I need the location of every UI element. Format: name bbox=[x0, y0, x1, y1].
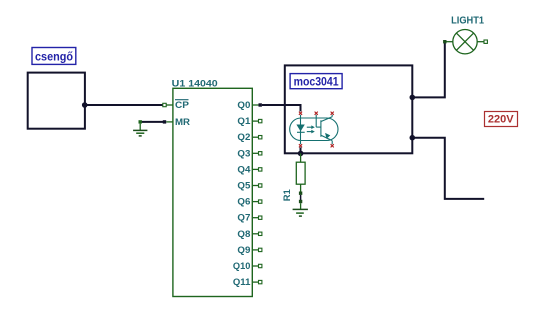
ground at MR bbox=[133, 120, 147, 136]
svg-text:Q5: Q5 bbox=[237, 181, 250, 191]
pin mark collector (red x) bbox=[331, 112, 334, 115]
svg-text:R1: R1 bbox=[282, 189, 292, 201]
node junction bell output bbox=[82, 102, 88, 108]
svg-text:Q4: Q4 bbox=[237, 164, 250, 174]
node junction cathode / R1 bbox=[298, 151, 304, 157]
wire bell to CP bbox=[85, 104, 163, 106]
phototransistor inside optocoupler bbox=[316, 115, 332, 144]
svg-text:U1 14040: U1 14040 bbox=[172, 79, 218, 90]
svg-text:Q2: Q2 bbox=[237, 132, 250, 142]
pin CP terminal bbox=[163, 103, 173, 106]
pin mark emitter (red x) bbox=[331, 144, 334, 147]
pin Q5 stub bbox=[252, 184, 262, 187]
wire cathode to bottom rail bbox=[300, 147, 302, 153]
IC U1 14040 body bbox=[172, 79, 253, 297]
pin Q4 stub bbox=[252, 168, 262, 171]
pin names Q0..Q11 bbox=[233, 100, 251, 287]
light arrows bbox=[307, 125, 315, 133]
svg-text:Q7: Q7 bbox=[237, 213, 250, 223]
wire ground to MR bbox=[140, 121, 163, 123]
LED inside optocoupler bbox=[296, 115, 304, 144]
label csengő bbox=[32, 48, 76, 65]
node junction box right bottom bbox=[410, 135, 416, 141]
svg-text:220V: 220V bbox=[488, 114, 514, 126]
wire to 220V line bbox=[412, 138, 484, 199]
label moc3041 bbox=[290, 74, 342, 89]
pin Q7 stub bbox=[252, 216, 262, 219]
wire to lamp bbox=[412, 43, 445, 98]
svg-text:MR: MR bbox=[175, 117, 191, 127]
pin mark anode (red x) bbox=[299, 112, 302, 115]
svg-text:Q8: Q8 bbox=[237, 229, 250, 239]
pin name CP (with overline) bbox=[175, 100, 189, 110]
pin Q8 stub bbox=[252, 232, 262, 235]
ground below R1 bbox=[293, 200, 308, 216]
svg-text:moc3041: moc3041 bbox=[294, 74, 339, 88]
svg-text:Q3: Q3 bbox=[237, 148, 250, 158]
svg-text:Q0: Q0 bbox=[237, 100, 250, 110]
svg-text:Q6: Q6 bbox=[237, 197, 250, 207]
svg-text:Q10: Q10 bbox=[233, 261, 251, 271]
svg-text:LIGHT1: LIGHT1 bbox=[451, 16, 484, 27]
node junction box right top bbox=[410, 95, 416, 101]
pin mark cathode (red x) bbox=[299, 144, 302, 147]
pin MR terminal bbox=[163, 120, 173, 123]
svg-text:CP: CP bbox=[175, 100, 189, 110]
label 220V bbox=[485, 112, 518, 127]
svg-text:csengő: csengő bbox=[35, 51, 73, 63]
pin Q10 stub bbox=[252, 264, 262, 267]
pin Q1 stub bbox=[252, 119, 262, 122]
svg-text:Q9: Q9 bbox=[237, 245, 250, 255]
wire R1 to ground bbox=[300, 195, 302, 200]
resistor R1 bbox=[282, 153, 305, 201]
pin Q3 stub bbox=[252, 152, 262, 155]
svg-text:Q11: Q11 bbox=[233, 277, 251, 287]
optocoupler box U2 moc3041 bbox=[285, 65, 413, 153]
pin Q9 stub bbox=[252, 248, 262, 251]
pin mark base-top (red x) bbox=[315, 112, 318, 115]
pin Q0 stub (connected) bbox=[252, 103, 262, 106]
pin Q11 stub bbox=[252, 280, 262, 283]
svg-text:Q1: Q1 bbox=[237, 116, 250, 126]
lamp LIGHT1 bbox=[443, 16, 487, 54]
pin Q2 stub bbox=[252, 136, 262, 139]
bell block (csengő box) bbox=[28, 73, 85, 129]
pin Q6 stub bbox=[252, 200, 262, 203]
wire Q0 to optocoupler anode bbox=[262, 105, 301, 111]
optocoupler body outline bbox=[290, 118, 338, 141]
